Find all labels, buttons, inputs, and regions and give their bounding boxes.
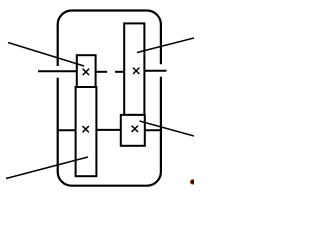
bearing mark x on gear Z3 bbox=[133, 68, 139, 74]
bearing mark x on gear Z2 bbox=[83, 126, 89, 132]
bullet dot (clipped, bottom right) bbox=[190, 179, 196, 185]
shaft I centerline dash A (between gears) bbox=[96, 71, 108, 73]
leader line to gear Z2 (from lower left) bbox=[6, 157, 88, 179]
gear Z3 (large wheel, upper right, on shaft I) bbox=[124, 23, 144, 115]
bearing mark x on gear Z4 bbox=[132, 126, 138, 132]
leader line to gear Z4 (to lower right) bbox=[140, 121, 195, 136]
shaft II left segment (wall to gear) bbox=[58, 129, 76, 131]
bearing mark x on gear Z1 bbox=[83, 69, 89, 75]
housing (gearbox case, rounded rectangle with bearing gaps in side walls) bbox=[58, 11, 161, 186]
gear Z2 (large wheel, lower left, on shaft II) bbox=[76, 87, 97, 176]
shaft II middle segment (between gears) bbox=[96, 129, 120, 131]
leader line to gear Z1 (from upper left) bbox=[8, 43, 84, 67]
shaft II right segment (gear to wall) bbox=[145, 129, 161, 131]
gear Z1 (small pinion, upper left, on shaft I) bbox=[77, 55, 96, 87]
leader line to gear Z3 (from upper right) bbox=[137, 38, 194, 53]
shaft I right stub (through right bearing gap) bbox=[144, 70, 166, 72]
shaft I left stub (input shaft through left bearing gap) bbox=[38, 70, 77, 72]
shaft I centerline dash B (between gears) bbox=[115, 71, 124, 73]
gear Z4 (small pinion, lower right, on shaft II) bbox=[121, 115, 145, 146]
